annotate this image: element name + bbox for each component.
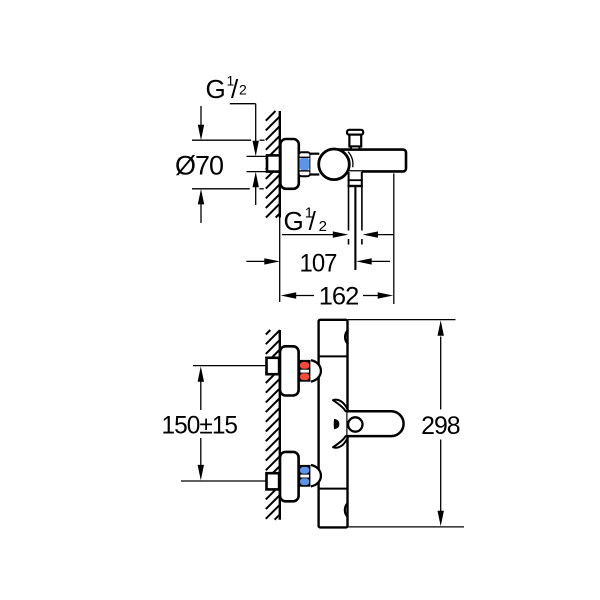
svg-text:162: 162 [319, 283, 359, 311]
svg-text:2: 2 [319, 218, 327, 235]
svg-text:G: G [284, 206, 304, 236]
svg-text:G: G [206, 74, 226, 104]
svg-text:2: 2 [239, 82, 247, 98]
svg-text:Ø70: Ø70 [175, 151, 223, 181]
svg-text:150±15: 150±15 [162, 412, 238, 440]
svg-text:/: / [231, 74, 239, 104]
svg-text:/: / [309, 206, 317, 236]
svg-text:107: 107 [300, 250, 337, 278]
svg-text:298: 298 [421, 412, 460, 440]
